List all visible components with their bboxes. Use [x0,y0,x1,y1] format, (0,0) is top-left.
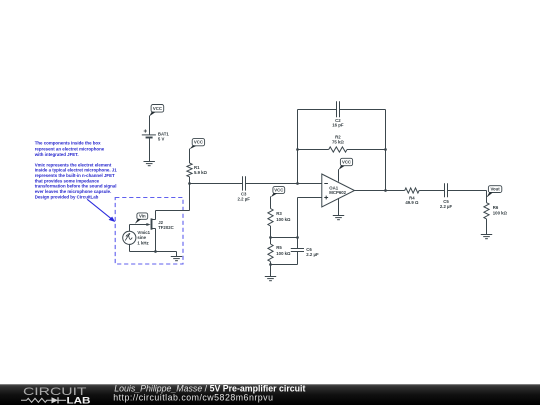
junction [296,148,299,151]
junction [296,182,299,185]
wire [156,210,190,212]
svg-text:Design provided by CircuitLab: Design provided by CircuitLab [35,194,99,199]
wire [298,109,337,111]
svg-text:5 V: 5 V [158,137,165,142]
wire [486,191,488,203]
resistor R5 [268,244,291,262]
CircuitLab logo [21,386,91,405]
URL text [113,392,273,402]
wire [149,138,151,161]
wire [176,252,178,257]
capacitor C5 [440,183,453,209]
power flag VCC (R1) [189,139,204,150]
wire [270,226,272,238]
node Vout flag [486,186,501,198]
wire [246,183,322,185]
transistor J2 [146,218,173,229]
wire [347,149,386,151]
capacitor C6 [291,247,319,257]
wire [419,190,444,192]
svg-text:16 pF: 16 pF [332,123,344,128]
svg-text:VCC: VCC [274,188,283,193]
wire [338,169,340,181]
wire [270,262,272,277]
junction [269,263,272,266]
wire [129,225,131,232]
svg-text:R3: R3 [276,211,282,216]
wire [190,183,243,185]
svg-text:TF202C: TF202C [158,225,174,230]
wire [385,110,387,191]
wire [155,211,157,220]
wire [297,110,299,184]
wire [130,251,177,253]
svg-text:75 kΩ: 75 kΩ [332,139,344,144]
microphone box (dashed) [115,198,183,265]
svg-text:2.2 µF: 2.2 µF [238,196,251,201]
resistor R4 [405,188,419,205]
junction [384,189,387,192]
footer bar [0,384,540,405]
ground (battery) [144,162,155,166]
svg-text:inside a typical electret micr: inside a typical electret microphone. J1 [35,168,118,173]
svg-text:that provides some impedance: that provides some impedance [35,178,100,183]
svg-text:VCC: VCC [153,106,162,111]
wire [297,198,299,249]
wire [486,219,488,235]
capacitor C3 [238,176,251,201]
svg-text:1 kHz: 1 kHz [137,240,148,245]
wire [355,190,405,192]
svg-text:Vin: Vin [139,214,146,219]
wire [448,190,487,192]
svg-text:Vmic represents the electret e: Vmic represents the electret element [35,162,112,167]
svg-text:represents the built-in n-chan: represents the built-in n-channel JFET [35,173,115,178]
capacitor C2 [332,101,344,127]
wire [270,238,272,245]
svg-text:MCP602: MCP602 [329,190,346,195]
wire [270,196,272,208]
svg-text:ever leaves the microphone cap: ever leaves the microphone capsule. [35,189,112,194]
battery BAT1 [142,129,170,141]
wire [340,109,386,111]
svg-text:100 kΩ: 100 kΩ [276,217,291,222]
wire [271,264,298,266]
junction [188,182,191,185]
junction [154,250,157,253]
wire [297,252,299,265]
svg-text:2.2 µF: 2.2 µF [306,252,319,257]
svg-text:100 kΩ: 100 kΩ [493,211,508,216]
wire [189,149,191,163]
power flag VCC (R3) [271,187,285,198]
op-amp OA1 [322,174,355,207]
junction [269,236,272,239]
svg-text:49.9 Ω: 49.9 Ω [405,200,419,205]
junction [296,236,299,239]
svg-text:http://circuitlab.com/cw5828m6: http://circuitlab.com/cw5828m6nrpvu [113,392,273,402]
power flag VCC (op-amp) [339,158,353,170]
wire [298,149,329,151]
junction [384,148,387,151]
annotation arrow [87,199,115,222]
power flag VCC (battery) [149,105,163,117]
wire [271,237,298,239]
node Vin flag [135,213,148,224]
wire [129,244,131,251]
svg-text:VCC: VCC [194,140,203,145]
ground (R6) [481,235,492,239]
ground (R5) [265,277,276,281]
voltage source Vmic1 [123,230,151,245]
svg-text:transformation before the soun: transformation before the sound signal [35,184,117,189]
svg-text:Vout: Vout [490,187,500,192]
svg-text:represent an electret micropho: represent an electret microphone [35,146,105,151]
svg-text:R6: R6 [493,205,499,210]
wire [338,198,340,215]
wire [189,184,191,211]
svg-text:100 kΩ: 100 kΩ [276,251,291,256]
ground (op-amp) [333,216,344,220]
resistor R6 [484,203,508,219]
svg-text:5.9 kΩ: 5.9 kΩ [194,170,208,175]
svg-text:LAB: LAB [67,395,91,405]
svg-text:with integrated JFET.: with integrated JFET. [34,152,79,157]
resistor R1 [187,163,208,177]
svg-text:R5: R5 [276,245,282,250]
wire [155,229,157,252]
wire [298,197,322,199]
annotation text [34,141,118,200]
resistor R3 [268,209,291,227]
wire [130,224,147,226]
wire [189,177,191,184]
svg-text:The components inside the box: The components inside the box [35,141,101,146]
resistor R2 [329,134,347,152]
wire [149,116,151,135]
ground (microphone) [171,257,182,261]
title text [114,384,305,394]
svg-text:2.2 µF: 2.2 µF [440,204,453,209]
svg-text:VCC: VCC [342,160,351,165]
